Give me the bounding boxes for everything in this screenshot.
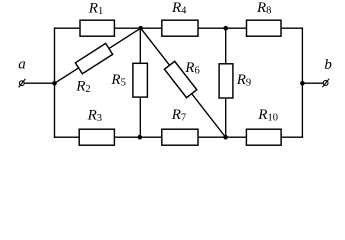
terminal b xyxy=(322,57,332,87)
resistor R3 xyxy=(79,107,114,145)
wire R2 diagonal xyxy=(55,28,141,83)
resistor R7 xyxy=(162,107,198,145)
svg-text:R2: R2 xyxy=(75,78,90,95)
wire right rail xyxy=(301,28,303,137)
resistor R6 xyxy=(164,60,199,98)
terminal a xyxy=(18,57,26,88)
svg-text:R3: R3 xyxy=(87,107,102,124)
node T1 top junction xyxy=(138,26,143,31)
wire terminal b lead xyxy=(302,82,323,84)
node a junction xyxy=(52,81,57,86)
svg-text:R6: R6 xyxy=(184,60,199,77)
svg-text:R7: R7 xyxy=(171,107,186,124)
svg-text:R9: R9 xyxy=(236,72,251,89)
svg-text:R10: R10 xyxy=(257,107,278,124)
svg-text:R5: R5 xyxy=(110,72,125,89)
node B2 bottom junction xyxy=(223,135,228,140)
wire R6 diagonal xyxy=(141,28,226,137)
node b junction xyxy=(300,81,305,86)
wire top rail xyxy=(55,27,303,29)
node T2 top junction xyxy=(223,26,228,31)
wire terminal a lead xyxy=(24,82,54,84)
resistor R9 xyxy=(219,64,251,98)
svg-text:a: a xyxy=(18,57,26,73)
svg-text:R1: R1 xyxy=(88,0,103,17)
resistor R1 xyxy=(80,0,114,36)
node B1 bottom junction xyxy=(138,135,143,140)
wire R9 column xyxy=(225,28,227,137)
wire bottom rail xyxy=(55,136,303,138)
wire left rail xyxy=(54,28,56,137)
resistor R8 xyxy=(247,0,282,36)
resistor R2 xyxy=(75,43,112,94)
wire R5 column xyxy=(139,28,141,137)
svg-text:b: b xyxy=(324,57,332,73)
resistor R4 xyxy=(162,0,198,36)
resistor R10 xyxy=(246,107,281,145)
svg-text:R4: R4 xyxy=(171,0,187,16)
resistor R5 xyxy=(110,63,147,97)
svg-text:R8: R8 xyxy=(256,0,271,17)
